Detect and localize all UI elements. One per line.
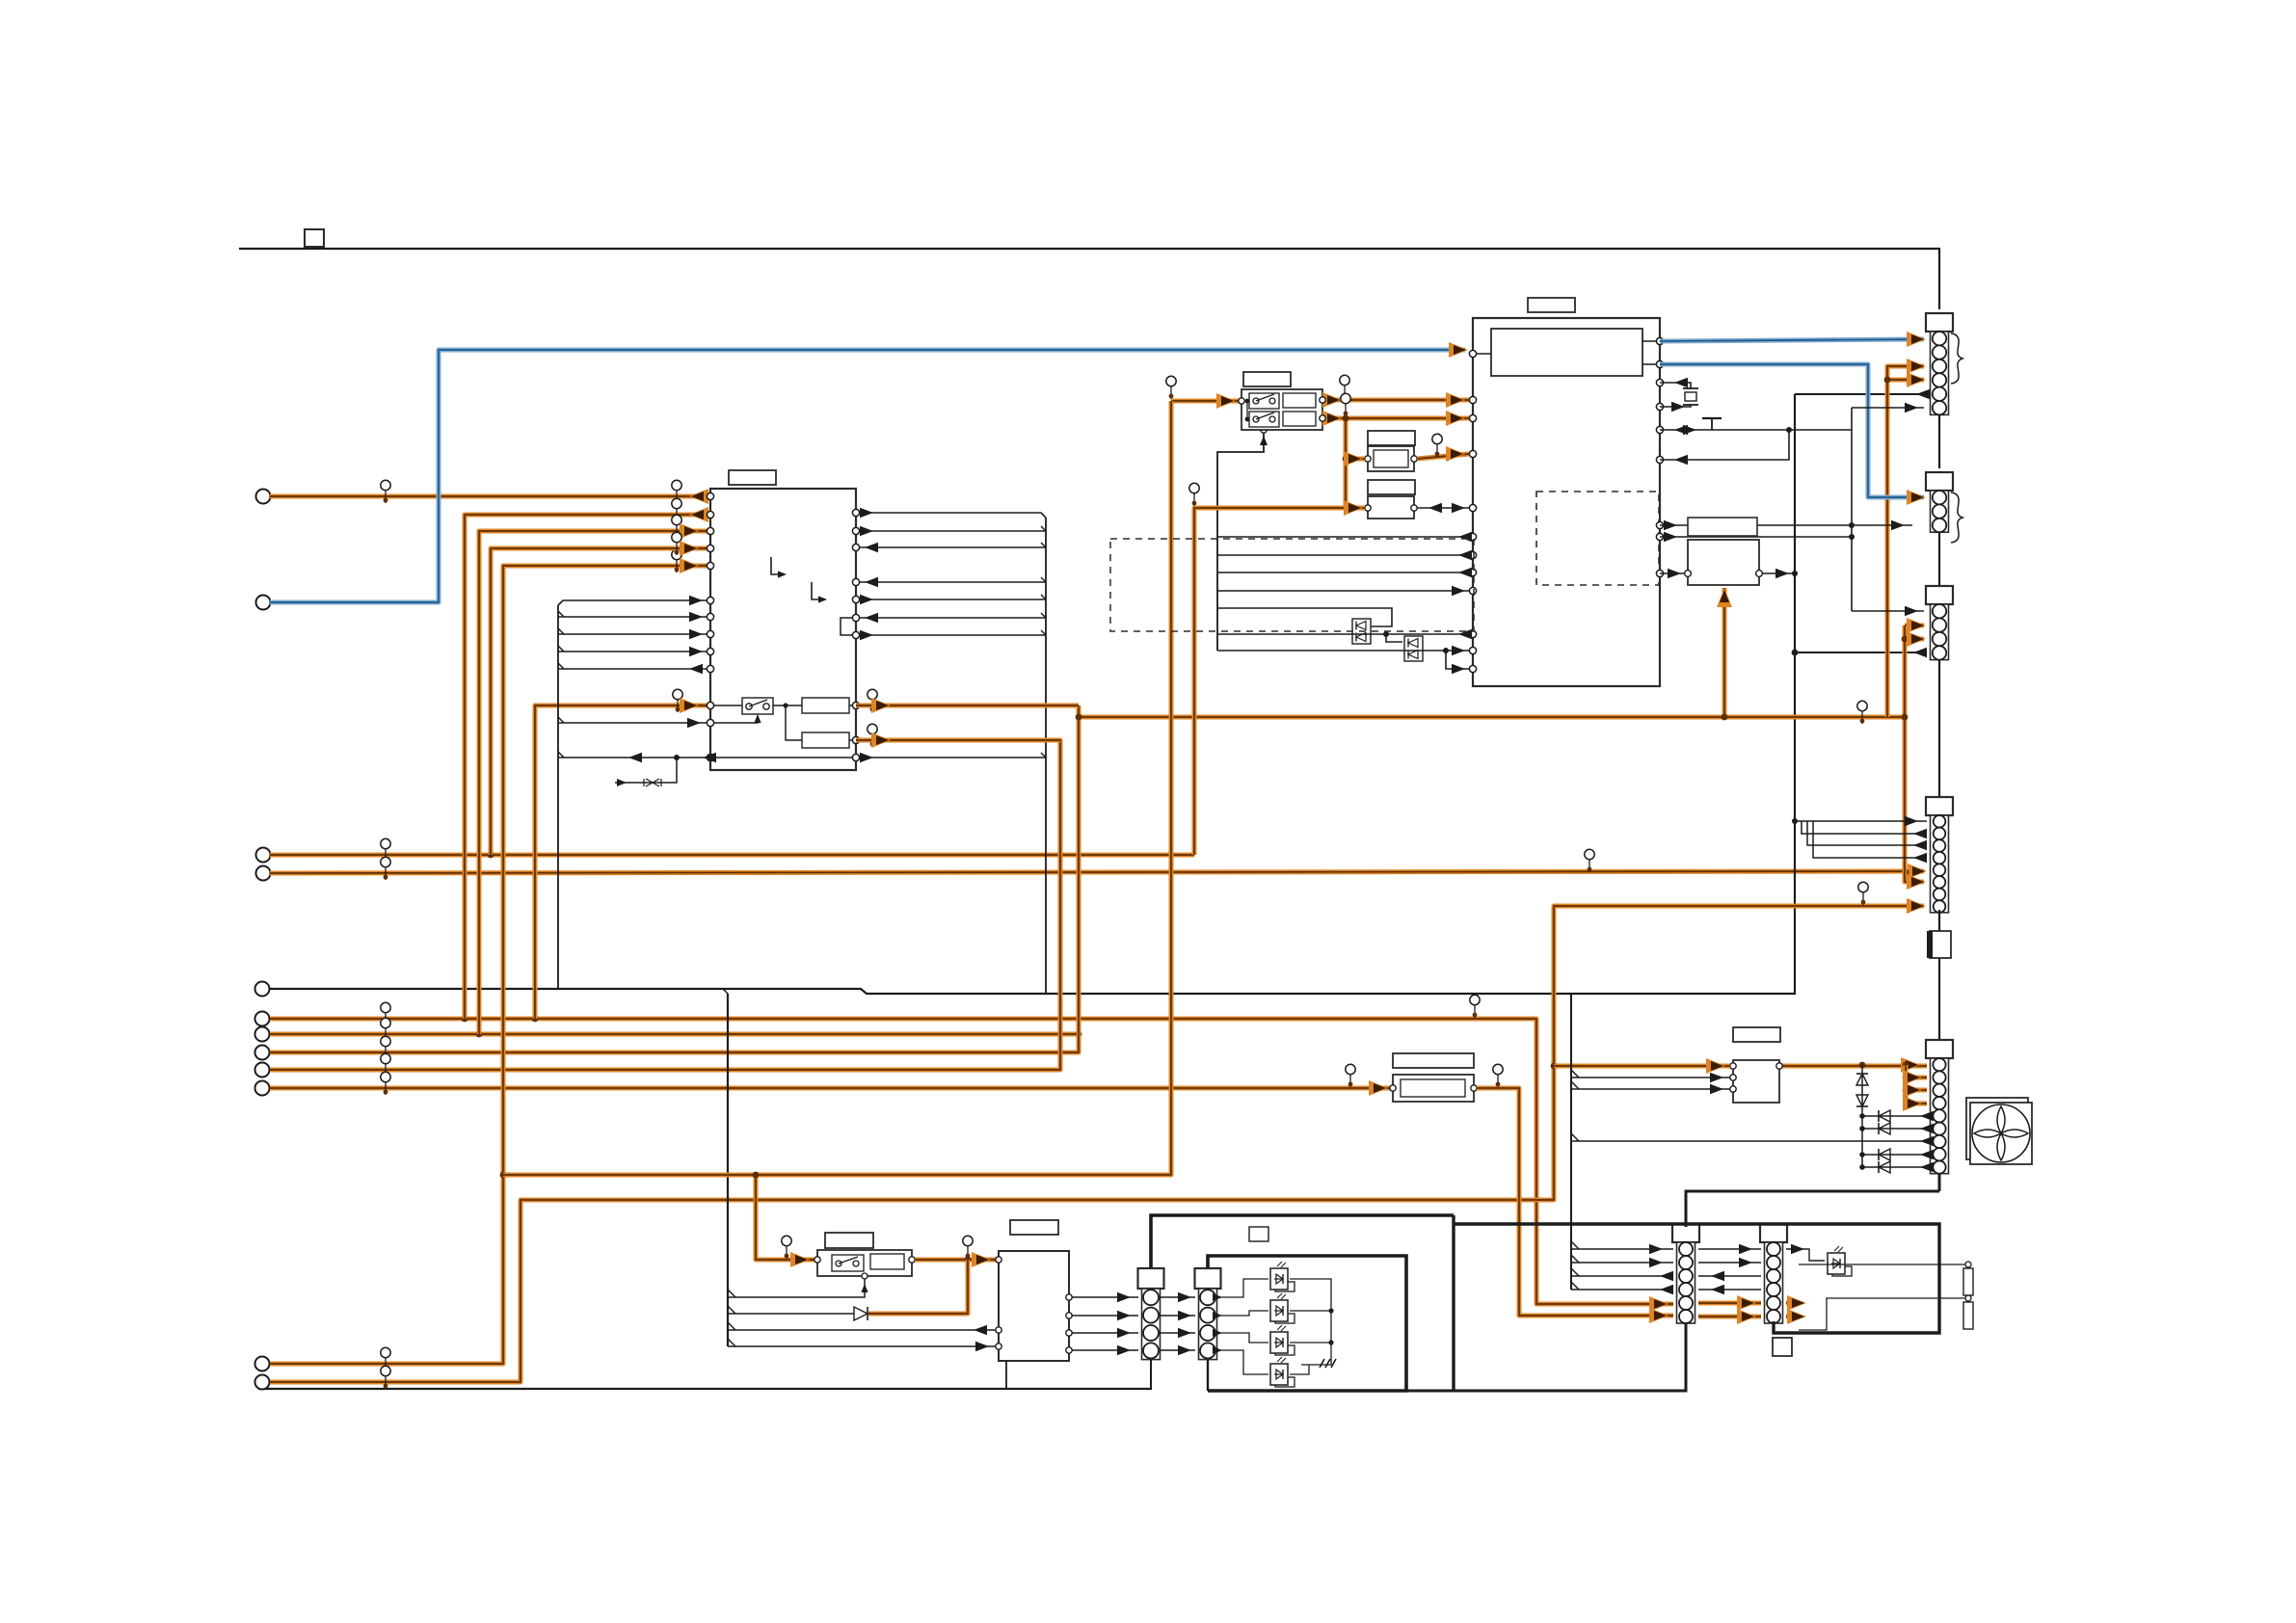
U1 pin y786 row with tap	[558, 757, 707, 758]
row y1397 into M6	[728, 1345, 996, 1347]
branch to J3 pin3	[1905, 637, 1924, 642]
box M2 title	[1368, 431, 1415, 445]
terminal T11 (orange, y1415)	[255, 1357, 270, 1371]
thick frame around A/B load area	[1454, 1224, 1939, 1333]
connector J4 row1 feed from ground trunk	[1795, 820, 1927, 822]
ground branch to connector J1 pin5	[1795, 393, 1924, 395]
terminal T5 (black ground, y1025)	[255, 982, 270, 997]
wire T7 to module U1 output rail riser	[270, 1032, 1079, 1037]
U2 pin circles	[1469, 350, 1476, 357]
B7 output wire to ground trunk	[1762, 572, 1795, 574]
connector J1 brace	[1951, 333, 1962, 384]
box M3 body	[1368, 496, 1414, 519]
module U1 title box	[729, 470, 776, 485]
relay coil wire from K1 to bus x1263	[1217, 430, 1264, 651]
K1 output 1 to U2 pin y415	[1322, 398, 1469, 403]
M3 feed wire from riser x1239	[1194, 508, 1365, 855]
LED indicator right of B	[1832, 1266, 1852, 1276]
fuse F2 title box	[1393, 1053, 1474, 1068]
ground symbol in lamp unit	[1320, 1359, 1336, 1368]
rows C to D	[1160, 1296, 1195, 1298]
module B7 (driver box) right of U2	[1688, 518, 1757, 536]
fan motor symbol	[1966, 1098, 2028, 1159]
K1 output 2 to U2 pin y434	[1322, 416, 1469, 421]
connector J4	[1926, 797, 1953, 815]
connector A bottom stub to lamp bus	[1208, 1323, 1686, 1391]
ground branch to connector J3 pin4	[1795, 652, 1924, 653]
connector J2	[1926, 472, 1953, 491]
wire T12 riser to rail y1242	[270, 906, 1924, 1382]
M6 bottom stub	[1005, 1361, 1007, 1389]
terminal T12 (orange, y1434)	[255, 1375, 270, 1390]
small id square under connector B	[1773, 1338, 1792, 1356]
link J3-J4	[1938, 660, 1940, 796]
J5 rows2-4 orange feeds	[1906, 1065, 1927, 1104]
U2 pin y658 wire through D1	[1217, 633, 1469, 635]
small id square in box1	[1249, 1227, 1268, 1241]
orange rows through A and B	[1698, 1301, 1761, 1306]
box M3 title	[1368, 480, 1415, 494]
link to U2 pin y694	[1446, 651, 1469, 669]
K1 resistor 1	[1283, 393, 1316, 408]
diode ladder vertical x1932	[1861, 1065, 1863, 1167]
U1 pin y750 row	[558, 722, 707, 724]
thick box1 outline (lamp unit)	[1151, 1215, 1454, 1268]
module U2 body	[1473, 318, 1660, 686]
thick link box1 right edge	[1452, 1215, 1455, 1391]
K1 switch 2	[1249, 412, 1279, 427]
module M6 title box	[1010, 1220, 1058, 1235]
M2 output to U2 pin y471	[1417, 454, 1469, 459]
wire T4 to connector J4 pin5 (y905)	[270, 871, 1924, 873]
crystal Y1 on U2 pins y397/y422	[1660, 383, 1691, 388]
LED L3	[1275, 1345, 1295, 1355]
dashed harness box left of U2	[1110, 539, 1474, 631]
terminal T10 (orange, y1129)	[255, 1081, 270, 1096]
fan return bus into connector A	[1686, 1191, 1939, 1227]
probe symbol on U2 pin y446	[1660, 429, 1852, 431]
U1 internal arrow glyph 2	[812, 582, 823, 599]
load wires	[1799, 1264, 1965, 1265]
module U1 body	[710, 489, 856, 770]
link J2-J3	[1938, 532, 1940, 586]
fuse F2 body	[1393, 1075, 1474, 1102]
connector C bottom stub	[1150, 1360, 1152, 1389]
K2 switch	[832, 1255, 864, 1271]
U2 pin y595 wire to B7	[1660, 572, 1685, 574]
U1 internal arrow glyph 1	[771, 557, 783, 574]
diode rows into J5	[1862, 1115, 1927, 1117]
fuse F2 output to connector A row6	[1477, 1088, 1673, 1316]
bottom border line	[258, 1388, 1152, 1390]
connector D shell	[1195, 1268, 1221, 1289]
riser x509 to U1 pin A4 (y569)	[491, 548, 710, 855]
wire T10 to fuse F2	[270, 1086, 1392, 1091]
connector C shell	[1138, 1268, 1164, 1289]
module M5 title box	[1733, 1027, 1780, 1042]
connector J3	[1926, 586, 1953, 604]
U2 internal sub-block	[1491, 329, 1642, 376]
relay K1 title box	[1243, 372, 1291, 386]
row y1380 out of M6	[728, 1329, 996, 1331]
U1 internal resistor R2	[802, 732, 849, 748]
K1 internal link	[1246, 401, 1248, 419]
riser x1958 to connector J1 pins 3-4	[1887, 366, 1924, 717]
connector J4 rows 2-4 (out wires)	[1938, 910, 1940, 931]
M3 link to U2 pin y527	[1417, 507, 1469, 509]
U2 right pin y557 wire	[1660, 536, 1852, 538]
rows between A and B	[1698, 1248, 1761, 1250]
LED L4	[1275, 1377, 1295, 1387]
U1 right pin rows to trunk	[860, 513, 1046, 518]
connector D bottom stub	[1207, 1360, 1209, 1391]
relay K2 body	[817, 1250, 912, 1276]
M6 outputs to connector C	[1072, 1296, 1138, 1298]
K2 coil pin	[862, 1273, 868, 1279]
terminal T1 (orange feed, y515)	[256, 490, 271, 504]
module M5 body	[1733, 1060, 1779, 1103]
K1 switch 1	[1249, 393, 1279, 409]
terminal T9 (orange, y1110)	[255, 1063, 270, 1078]
diode pack D2	[1404, 636, 1423, 661]
wire T11 riser to module U1 pin A5 and relay rail	[270, 566, 710, 1364]
connector J1	[1926, 313, 1953, 332]
blue output wire 1 to connector J1 pin1	[1660, 339, 1924, 341]
ground wire T5 to right trunk	[270, 394, 1795, 994]
top border line	[239, 249, 1939, 309]
rail y744 across middle to right connectors	[1079, 715, 1905, 720]
inline diode down	[1856, 1095, 1868, 1106]
LED cathode bus	[1290, 1279, 1331, 1365]
U1 internal switch S1	[742, 698, 773, 714]
connector J5 (fan connector)	[1926, 1040, 1953, 1058]
connector B shell	[1760, 1224, 1787, 1242]
U1 right harness trunk x1085	[1045, 518, 1047, 994]
branch to J1 pin4	[1887, 378, 1924, 383]
vertical link x1921 to J1 pin6 / J2 pin3 / J3 pin1	[1851, 408, 1853, 611]
LED L1	[1275, 1282, 1295, 1291]
riser x555 to U1 switch pin (y732)	[535, 705, 710, 1019]
U1 orange output pin y768	[856, 738, 1060, 743]
wire T3 rail to M3 riser and connector feeds	[270, 853, 1194, 858]
K2 resistor	[870, 1254, 904, 1269]
blue wire T2 to module U2 (y363)	[270, 350, 1465, 602]
module M6 body	[999, 1251, 1069, 1361]
trunk x1215 down to rail y1219	[503, 401, 1171, 1175]
J5 bottom return	[1938, 1174, 1941, 1191]
terminal T7 (orange, y1073)	[255, 1027, 270, 1042]
frame id square	[305, 229, 324, 247]
terminal T3 (orange, y887)	[256, 848, 271, 863]
U2 pin y477 wire	[1660, 430, 1789, 460]
riser x1396 from K1 out2 down to M3 feed	[1344, 418, 1348, 508]
U2 pin y545 wire to connector J2 pin3	[1660, 524, 1912, 526]
diode feed row y1363	[728, 1313, 854, 1315]
trunk x755 down to bottom relay rows	[727, 994, 729, 1346]
rail y1242 light orange (drawn above)	[0, 0, 1, 1]
bus branch y631 to diode pack D1	[1217, 608, 1392, 626]
connector A shell	[1672, 1224, 1699, 1242]
relay K1 body	[1241, 389, 1322, 430]
relay K2 title box	[825, 1233, 873, 1248]
riser x1976 to connector J3 pins2-3 and J4 pin6	[1905, 624, 1924, 628]
wire T6 rail to connector A row5	[270, 1019, 1673, 1304]
trunk fan-out rows to connector A	[1571, 1248, 1673, 1250]
wire T8 joining riser x1119	[270, 705, 1079, 1052]
M5 black inputs from trunk x1630	[1571, 1077, 1730, 1078]
M2 feed from riser	[1346, 457, 1365, 462]
U1 internal wiring	[714, 705, 742, 706]
wire T9 to module U1 pin (y768) via riser x1100	[270, 740, 1060, 1070]
K1 feed from trunk x1215	[1171, 399, 1241, 404]
terminal T8 (orange, y1092)	[255, 1046, 270, 1060]
resistor loads right side	[1963, 1268, 1973, 1295]
U1 left pin rows from trunk	[558, 600, 707, 605]
connector J2 brace	[1951, 492, 1962, 543]
K1 resistor 2	[1283, 412, 1316, 426]
diode pack D1	[1352, 619, 1371, 644]
B7 orange coil feed from rail y744	[1722, 588, 1727, 717]
U1 internal pass-through y786	[714, 757, 852, 758]
dark orange rail y1219 riser to bottom relay K2	[756, 1175, 814, 1260]
wire T1 to module U1 pin A1 (y515)	[270, 494, 710, 499]
LED L2	[1275, 1314, 1295, 1323]
U2 pin y675 wire through D2	[1217, 650, 1469, 652]
K2 output to module M6	[915, 1258, 996, 1263]
riser x497 to U1 pin A3 (y551)	[479, 531, 710, 1034]
terminal T6 (orange, y1057)	[255, 1012, 270, 1026]
U2 dashed internal box	[1536, 492, 1659, 585]
thick box2 outline (LED lamp unit)	[1208, 1256, 1406, 1391]
orange rows out of B	[1786, 1301, 1801, 1306]
J5 row7 feed from trunk x1630	[1571, 1140, 1927, 1142]
M5 orange feed from riser x1612	[1554, 1064, 1730, 1069]
terminal T4 (orange, y906)	[256, 866, 271, 881]
riser x482 to U1 pin A2 (y534)	[465, 515, 710, 1019]
U1 internal resistor R1	[802, 698, 849, 713]
LED wiring from connector D	[1216, 1279, 1268, 1297]
box M2 body (fuse)	[1368, 446, 1414, 471]
blue output wire 2 to connector J2 pin1	[1660, 364, 1924, 497]
U1 left harness trunk x579	[557, 605, 559, 989]
inline connector between J4 and J5	[1930, 931, 1951, 958]
black trunk x1630 from ground rail down to connectors A/B	[1570, 994, 1572, 1290]
module U2 title box	[1528, 298, 1575, 312]
U1 pin circles	[707, 492, 713, 499]
U1 internal bracket pins y641-659	[841, 618, 852, 635]
J5 row1 orange feed (from M5)	[1782, 1064, 1927, 1069]
bus branches to U2 left pins	[1217, 536, 1469, 538]
link J1-J2	[1938, 415, 1940, 468]
inline diode up	[1856, 1074, 1868, 1085]
U1 orange output pin y732 to rail y744	[856, 704, 1079, 708]
terminal T2 (blue, y625)	[256, 596, 271, 610]
